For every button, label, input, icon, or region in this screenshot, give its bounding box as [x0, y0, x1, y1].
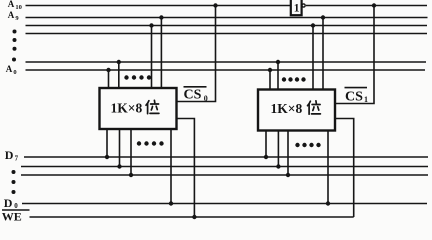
wire chip2 pin D0: [327, 131, 329, 204]
wire chip2 pin A9: [322, 18, 324, 90]
junction chip2 D6: [276, 164, 280, 168]
wire A1 line: [26, 61, 427, 63]
wire chip2 pin D5: [287, 131, 289, 176]
ellipsis dots above chip1: [124, 75, 128, 79]
wire chip1 pin A8: [151, 26, 153, 89]
wire chip2 pin A0: [269, 70, 271, 90]
junction chip2 A1: [276, 60, 280, 64]
junction chip2 D0: [326, 201, 330, 205]
wire chip2 pin A8: [312, 26, 314, 90]
wire A7 line: [26, 33, 428, 35]
wire A8 line: [26, 25, 428, 27]
svg-text:1: 1: [294, 3, 300, 15]
junction chip2 A0: [268, 68, 272, 72]
wire chip1 pin D6: [119, 129, 121, 167]
junction chip1 A1: [117, 60, 121, 64]
wire D6 line: [21, 166, 428, 168]
wire chip2 WE pin: [335, 119, 354, 218]
vertical ellipsis between A9 and A1: [13, 30, 17, 34]
wire CS1 vertical from inverter output: [335, 6, 374, 104]
wire A10 inverted output segment: [306, 5, 427, 7]
svg-text:0: 0: [13, 69, 16, 76]
wire D0 line: [22, 203, 427, 205]
svg-text:D: D: [5, 148, 14, 162]
svg-text:10: 10: [15, 4, 22, 11]
ellipsis dots above chip2: [282, 77, 286, 81]
wire chip1 pin D0: [170, 129, 172, 204]
svg-text:1K×8: 1K×8: [271, 101, 303, 116]
junction chip1 D5: [129, 173, 133, 177]
junction chip2 D5: [286, 173, 290, 177]
wire WE line: [30, 216, 354, 218]
svg-text:1K×8: 1K×8: [111, 101, 143, 116]
junction chip1 A0: [106, 68, 110, 72]
junction chip2 A8: [311, 23, 315, 27]
svg-text:CS: CS: [184, 88, 202, 103]
svg-text:A: A: [6, 64, 13, 74]
inverter U3 output bubble: [302, 4, 305, 7]
junction chip2 D7: [264, 155, 268, 159]
svg-text:D: D: [4, 196, 13, 210]
wire chip1 pin D5: [130, 129, 132, 176]
svg-text:9: 9: [15, 15, 19, 22]
wire chip1 WE pin: [177, 119, 195, 218]
wire A0 line: [26, 69, 426, 71]
wire A9 line: [26, 17, 428, 19]
junction chip1 WE: [192, 215, 196, 219]
wire chip1 pin A9: [160, 18, 162, 89]
ellipsis dots below chip1: [137, 141, 141, 145]
svg-text:7: 7: [15, 155, 19, 163]
wire chip1 pin D7: [106, 129, 108, 158]
junction chip1 A9: [159, 15, 163, 19]
svg-text:CS: CS: [345, 89, 363, 104]
junction chip1 D7: [105, 155, 109, 159]
inverter U3 (IEC "1" box): [291, 0, 302, 15]
label CS1 with overline: [345, 87, 368, 89]
wire D7 line: [24, 156, 428, 158]
wire D5 line: [21, 174, 428, 176]
vertical ellipsis between D5 and D0: [12, 170, 16, 174]
memory chip U2 box: [258, 90, 335, 131]
svg-text:WE: WE: [2, 210, 22, 224]
svg-text:0: 0: [204, 94, 208, 103]
memory chip U1 box: [100, 88, 177, 129]
wire chip1 pin A0: [108, 70, 110, 88]
junction on inverter output at CS1 tap: [372, 3, 376, 7]
label WE with overline: [2, 209, 30, 211]
wire CS0 vertical from A10: [177, 6, 216, 102]
svg-text:A: A: [8, 0, 15, 9]
wire chip2 pin A1: [277, 62, 279, 90]
ellipsis dots below chip2: [295, 143, 299, 147]
wire chip2 pin D7: [265, 131, 267, 158]
svg-text:1: 1: [364, 95, 368, 104]
wire chip1 pin A1: [118, 62, 120, 88]
junction chip2 A9: [321, 15, 325, 19]
junction chip1 A8: [149, 23, 153, 27]
label CS0 with overline: [184, 86, 207, 88]
junction on A10 at CS0 tap: [213, 3, 217, 7]
wire A10 line left segment: [26, 5, 291, 7]
wire chip2 pin D6: [277, 131, 279, 167]
svg-text:A: A: [8, 10, 15, 20]
junction chip1 D0: [169, 201, 173, 205]
junction chip1 D6: [117, 164, 121, 168]
